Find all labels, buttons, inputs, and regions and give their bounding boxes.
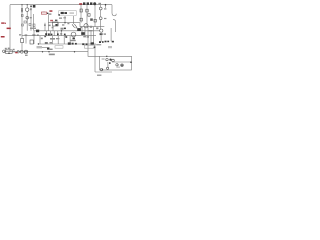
label grey above x1 [13,49,15,50]
blob lower c4 [57,33,59,35]
resistor bits right row r3 [105,41,107,43]
junction node G [48,51,49,52]
resistor bits right row r1 [99,41,101,43]
wire sub-circuit left drop [94,44,96,72]
IC U3 dark label B [64,12,67,14]
label grey relay 2 [63,17,66,18]
label grey above x1 a [5,48,7,49]
label grey pin top [98,3,101,5]
red capacitor C1 outline [41,12,46,14]
label grey relay 4 [62,24,64,25]
dark bit mid lower [64,34,66,35]
label grey sub box [102,58,105,59]
bus bit dark [30,6,32,8]
pickup J1 circle [3,50,6,53]
junction node Q [61,30,62,31]
label grey above bus 2 [25,34,28,35]
transistor Q4 circle [71,32,76,37]
label grey row2 3 [83,36,86,38]
label grey q2 left [80,26,82,28]
IC U3 corner dark [58,14,60,15]
junction node R [65,35,66,36]
label grey mid band 1 [30,28,36,29]
wire vertical x93.6 mid [93,27,95,44]
label grey relay 3 [55,20,57,22]
label grey row B [96,44,101,45]
diode D3 dark [87,2,89,5]
label grey 200 [50,38,55,40]
blob row b2 [75,43,77,45]
resistor R16 box [55,46,63,49]
junction node E [8,52,10,54]
label grey mid marks 2 [48,25,51,27]
junction node B [27,4,28,5]
dark bit bus x45 [44,36,46,38]
wire short y48.6 [42,47,47,49]
sub contact S2 circle [112,59,115,62]
label grey pin1 [104,8,106,9]
junction node P [26,51,27,52]
transistor Q3 circle [100,29,103,32]
resistor R15 box [94,19,96,22]
wire vertical x58 [57,23,59,26]
wire vertical x82 mid [81,27,83,33]
label grey below d9 [50,49,53,50]
sub contact S5 circle [100,68,102,70]
resistor bits right row r4 [107,41,109,43]
wire vertical x33.5 [33,14,35,31]
diode D5 dark bus bit [33,5,36,8]
sub dark contact S8 [121,64,123,66]
mesh box M3 [33,24,35,27]
wire vertical x100.5 [100,5,102,30]
label grey row2 1 [56,38,59,39]
wire vertical x53 [52,26,54,31]
label grey rail box [60,33,62,35]
mesh box M2 [29,24,31,26]
red label top right [79,3,82,5]
trimmer VR1 circle [26,16,29,19]
label grey d7 top [76,27,78,28]
label grey box r10 [108,46,112,48]
label grey sub ticks [116,67,120,68]
wire vertical x65 [64,16,66,23]
label grey q1 text [30,8,32,10]
input box X1 [5,50,12,53]
wire vertical x45 [44,23,46,31]
label grey q4 value [70,40,76,41]
label grey q2 mid [90,26,92,28]
label grey above bus 1 [19,34,21,35]
junction node H [74,51,75,52]
label grey pin2 [104,18,106,19]
IC U3 dark label A [61,12,64,14]
label grey above bus 3 [32,34,35,35]
wire rail y30.8 [34,30,100,32]
label grey c1 top [43,12,45,13]
wire vertical x61.2 [60,31,62,36]
wire vertical x81 [80,5,82,23]
label grey row2 4 [87,36,89,38]
label grey r6 right [41,38,43,40]
blob row b1 [72,43,74,45]
wire bottom ground bus [4,51,88,53]
label grey bottom left [13,51,15,52]
diode D6 dark blob [36,30,39,33]
wire sub-circuit inner rail [112,61,132,63]
wire vertical x48.7 [48,14,50,31]
wire vertical x85 mid [84,27,86,36]
resistor R11 box [80,9,82,12]
wire sub-circuit box [100,56,132,70]
wire vertical x101 lower [100,35,102,42]
label grey vr1 text [30,17,32,18]
red label bottom [15,52,17,53]
sub contact S6 circle [107,67,109,69]
junction node I [106,56,107,57]
label grey mid left marks [44,24,46,26]
junction node O [24,51,25,52]
label grey 1.5k [49,54,55,56]
wire sub-circuit bottom rail [95,71,112,73]
wire vertical x40 lower [39,36,41,44]
diode D1 slashes [72,24,77,28]
sub dark bit on rail [109,62,111,64]
wire bottom right link [88,52,100,57]
diode D2 dark [83,2,85,5]
junction node F [42,51,43,52]
blob bus mark [56,24,58,26]
wire vertical x22 [21,5,23,50]
dark text mid rail [64,28,66,30]
mesh box M5 [22,24,24,26]
transistor Q1 circle [26,8,29,11]
red label TP1 [49,10,52,12]
IC U3 faint right text [70,12,75,14]
motor M6 circle [20,50,23,53]
label grey box c7 [37,46,43,48]
connector pin P1 circle [99,7,102,10]
transistor Q12 dark [73,38,75,40]
junction node A [21,4,22,5]
blob lower c2 [51,34,53,36]
resistor R12 box [86,9,88,12]
IC U2 dark box a [100,33,101,35]
red label relay [50,20,53,22]
sub contact S1 circle [106,58,108,60]
capacitor C4 dark dot [47,13,48,14]
blob lower c3 [48,33,50,35]
wire sub stub x107.9 [107,62,109,67]
transistor Q2 circle [84,24,88,28]
resistor R5 box [21,39,24,43]
junction node K [102,69,103,70]
wire vertical x95 [94,5,96,27]
resistor R14 box [88,14,90,17]
resistor R6 box [30,40,33,44]
wire vertical x31 [30,7,32,31]
label grey lamp below [25,55,28,56]
relay contact dark [55,24,57,26]
label grey above bus 4 [37,34,39,35]
label grey bottom mid 2 [50,42,53,44]
relay K1 box [53,22,59,26]
label grey relay 5 [67,23,69,24]
IC U3 rounded outline [59,10,77,15]
diode D4 dark [90,2,92,5]
label grey q2 right [96,27,98,29]
IC U2 dark box b [101,33,102,35]
label grey mid band 4 [89,30,93,31]
mesh box M1 [24,21,27,23]
connector pin P2 circle [99,17,102,20]
label grey bottom mid [45,42,48,44]
wire vertical x34 lower [33,31,35,44]
label grey above x1 b [8,48,10,49]
label grey relay 6 [52,27,54,29]
wire right lower drop with hop [113,20,116,32]
blob lower c1 [45,33,47,35]
sub contact S3 circle [116,64,118,66]
wire vertical x87 [86,5,88,27]
wire rail y22.7 [48,22,80,24]
label grey relay 1 [59,18,62,19]
lamp L1 circle [24,50,27,53]
red label left net1 dot [5,23,6,24]
wire vertical x27 [26,5,28,31]
blob row b4 [86,43,88,45]
blob row b5 [91,42,94,44]
wire vertical x111 lower [110,28,112,41]
diode D9 dark [47,47,49,49]
wire verticals y31-36 [46,31,57,36]
resistor bits right row r5 [112,41,114,43]
wire vertical x91 mid [90,31,92,42]
label grey c1 value [48,13,51,14]
junction node J [130,61,132,63]
sub contact S4 circle [121,64,124,67]
diode D8 dark [68,42,71,44]
wire mid bus y35.7 [22,35,96,37]
diode D7 dark blob [77,28,81,31]
red label squiggle [7,28,11,30]
sub dark contact S7 [109,59,111,61]
junction node M [118,64,119,65]
junction node C [105,4,107,6]
wire vertical x88 mid [87,27,89,52]
dark box mid right [90,18,93,20]
wire rail y26.6 [80,23,104,27]
wire component row y44 [38,43,96,45]
wire vertical x73.5 [73,16,75,24]
resistor bits right row r2 [102,41,104,43]
sensor circle S9 [17,51,19,53]
wire right drop with hop [112,5,116,16]
dark dot in R9 [94,47,96,48]
blob row b3 [82,43,84,45]
resistor R13 box [80,18,82,21]
wire vertical x26 lower [25,36,27,44]
mesh box M4 [21,15,23,17]
wire vertical x105 stub [105,5,107,8]
resistor R9 box [85,45,95,48]
label grey under box [97,75,101,76]
transistor Q11 dark circle [93,2,96,5]
wire verticals y36-44 [52,36,70,44]
junction node D [64,22,65,23]
wire top supply bus [10,4,112,6]
wire left border [9,5,11,52]
red label left net2 [1,36,5,38]
junction node S [38,43,39,44]
label grey u2 value [104,33,106,34]
label grey rail text [61,28,64,30]
red label left net1 [1,22,4,23]
blob bus right dot [65,36,67,38]
IC U1 dark box [81,32,85,35]
resistor R1 rungs [21,9,23,12]
